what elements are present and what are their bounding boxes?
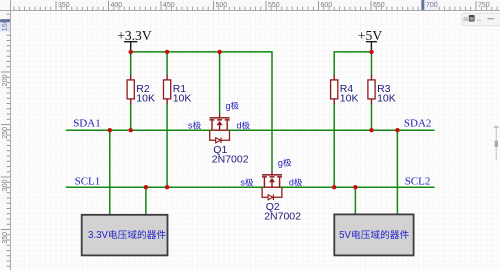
svg-text:2N7002: 2N7002 [264,211,301,223]
svg-text:200: 200 [2,74,9,86]
svg-text:700: 700 [426,2,438,9]
svg-text:SDA1: SDA1 [73,117,101,129]
svg-text:g: g [226,101,231,111]
svg-text:150: 150 [2,19,9,31]
svg-text:10K: 10K [340,92,359,104]
svg-text:g: g [278,158,283,168]
svg-text:s: s [240,178,245,188]
svg-text:10K: 10K [173,92,192,104]
svg-text:350: 350 [58,2,70,9]
svg-text:650: 650 [373,2,385,9]
svg-text:400: 400 [111,2,123,9]
svg-text:+5V: +5V [358,28,382,43]
svg-text:3.3V: 3.3V [88,230,108,241]
svg-text:250: 250 [2,127,9,139]
svg-text:10K: 10K [136,92,155,104]
svg-text:SCL1: SCL1 [75,176,101,188]
svg-text:300: 300 [2,179,9,191]
svg-text:550: 550 [268,2,280,9]
svg-text:+3.3V: +3.3V [117,28,152,43]
svg-text:450: 450 [163,2,175,9]
svg-text:350: 350 [2,232,9,244]
svg-text:750: 750 [478,2,490,9]
svg-text:d: d [237,121,242,131]
svg-text:d: d [289,178,294,188]
svg-text:10K: 10K [377,92,396,104]
svg-text:SCL2: SCL2 [405,176,431,188]
svg-text:SDA2: SDA2 [404,117,432,129]
svg-text:5V: 5V [339,230,351,241]
svg-text:2N7002: 2N7002 [212,154,249,166]
svg-text:s: s [188,121,193,131]
svg-text:600: 600 [321,2,333,9]
svg-text:500: 500 [216,2,228,9]
